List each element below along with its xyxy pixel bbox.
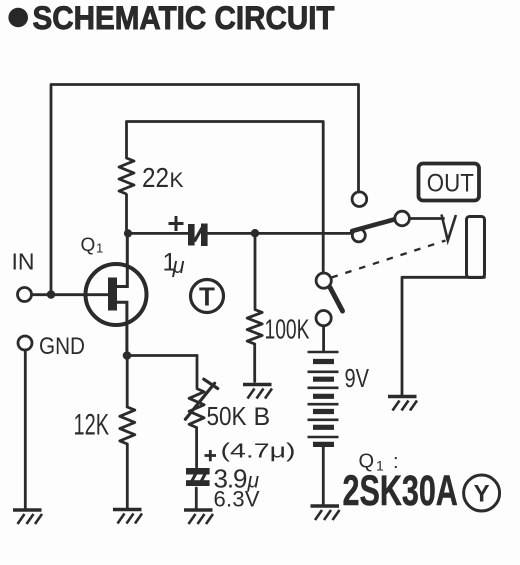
svg-text:1: 1 (96, 241, 103, 256)
svg-text:Q: Q (81, 235, 96, 256)
switch upper open contact circle (352, 192, 367, 207)
node 100K junction dot (251, 229, 259, 237)
transistor Q1 drain lead (117, 233, 128, 286)
switch signal contact circle on main wire (352, 229, 365, 242)
label OUT box (419, 164, 480, 201)
transistor Q1 source lead (117, 302, 127, 355)
svg-text:SCHEMATIC CIRCUIT: SCHEMATIC CIRCUIT (33, 0, 335, 36)
wire 100K bottom to ground (253, 344, 256, 382)
switch arm lower (330, 287, 343, 311)
svg-text:T: T (199, 282, 215, 312)
wire 12K bottom to ground (126, 444, 129, 508)
svg-text:OUT: OUT (427, 170, 474, 198)
svg-text:(4.7μ): (4.7μ) (221, 441, 296, 463)
svg-text:Y: Y (474, 481, 490, 508)
wire switch upper contact to jack tip (410, 217, 444, 220)
wire source node down to 12K (126, 356, 129, 408)
resistor 12K zigzag (120, 407, 135, 444)
transistor Q1 JFET circle (86, 264, 147, 325)
jack tip spring V (442, 215, 456, 241)
terminal IN circle (18, 288, 32, 302)
potentiometer 50K zigzag (189, 389, 204, 428)
switch pole circle to jack (395, 211, 410, 226)
svg-text:12K: 12K (74, 409, 110, 442)
plus sign of capacitor C2 (205, 450, 217, 461)
transistor Q1 channel bar (108, 278, 117, 311)
grade circle Y (464, 475, 500, 511)
battery top terminal circle (316, 311, 331, 326)
node drain junction dot (124, 229, 132, 237)
plus sign of capacitor C1 (169, 216, 184, 231)
node source junction dot (123, 351, 132, 360)
svg-text:2SK30A: 2SK30A (343, 466, 458, 514)
ground at jack sleeve (388, 397, 417, 411)
jack sleeve body (467, 217, 485, 278)
svg-text:GND: GND (39, 333, 85, 360)
wire 100K branch down from node (254, 233, 257, 309)
wire pot top vertical (196, 356, 199, 389)
wire GND terminal down to ground (24, 350, 27, 508)
wire 22K bottom to drain node (125, 195, 128, 234)
wire top rail from gate node up and across to switch contact (51, 85, 359, 295)
node gate junction dot (47, 290, 56, 299)
svg-text:100K: 100K (265, 314, 310, 345)
wire IN terminal to gate (32, 293, 109, 296)
wire jack sleeve step down to ground (402, 277, 485, 394)
svg-text:22: 22 (142, 162, 169, 193)
terminal GND circle (18, 336, 32, 350)
battery B1 9V plates (308, 352, 339, 444)
switch gang dashed link (332, 241, 446, 278)
capacitor C1 1u electrolytic plates (188, 224, 208, 247)
ground at 100K (243, 385, 272, 399)
wire capacitor C2 to ground (195, 488, 198, 508)
svg-text:B: B (254, 403, 271, 431)
wire battery top circle to battery plates (322, 326, 325, 351)
resistor R 22K zigzag (119, 158, 134, 194)
resistor 100K zigzag (247, 310, 262, 345)
capacitor C2 3.9u electrolytic plates (186, 468, 210, 486)
ground at capacitor C2 (184, 510, 213, 524)
svg-text:μ: μ (172, 253, 185, 278)
wire capacitor C1 to switch (208, 232, 353, 235)
svg-text:9V: 9V (345, 363, 370, 393)
svg-text:50K: 50K (207, 401, 248, 431)
ground at GND terminal (13, 510, 42, 524)
ground at battery (311, 506, 340, 520)
potentiometer 50K trimmer arrow (185, 379, 217, 419)
svg-text:IN: IN (12, 249, 35, 275)
switch arm upper (352, 220, 394, 232)
wire battery bottom to ground (322, 447, 325, 505)
svg-text:K: K (170, 169, 184, 192)
switch lower pole circle (316, 273, 331, 288)
svg-text:6.3V: 6.3V (214, 487, 260, 512)
wire drain node to capacitor C1 (128, 232, 189, 235)
ground at 12K (113, 510, 142, 524)
title bullet (8, 8, 28, 28)
tone mark circle T (191, 280, 224, 313)
wire pot bottom to capacitor C2 (195, 428, 198, 468)
wire second rail from 22K top to power switch vertical (127, 122, 324, 274)
wire source node horizontal to 50K pot (127, 354, 197, 357)
